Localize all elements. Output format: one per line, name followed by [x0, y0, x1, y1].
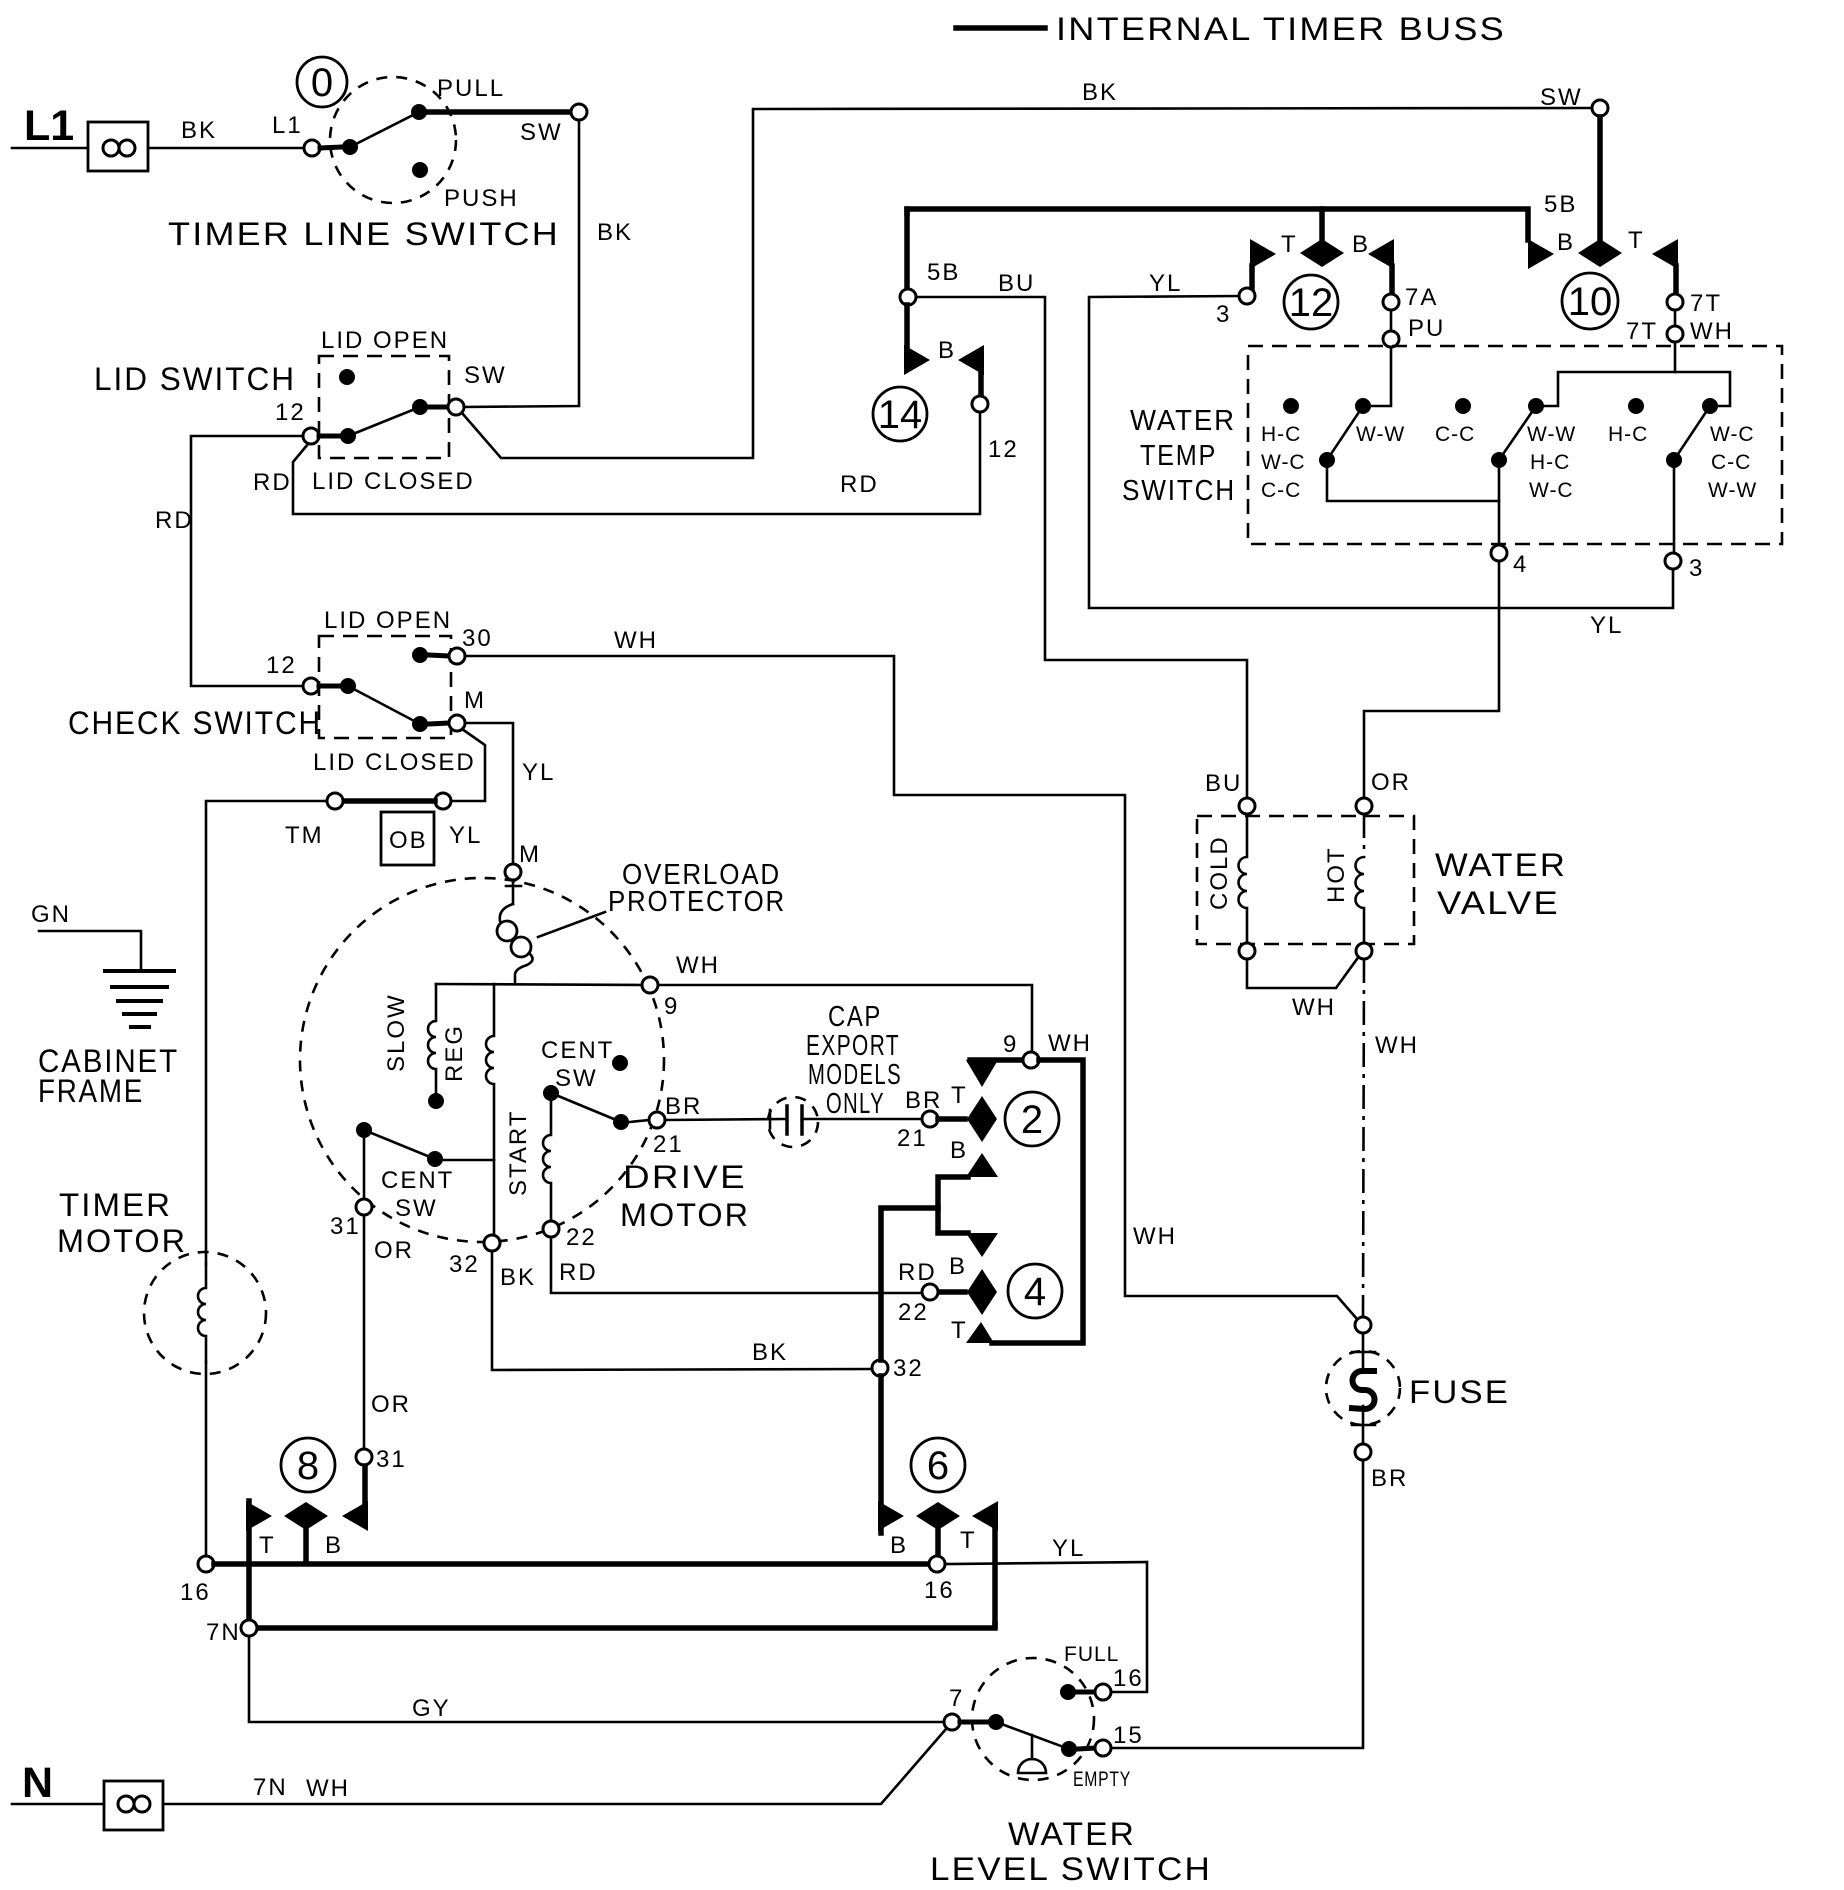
water level switch dashed circle: [972, 1658, 1094, 1780]
node M: [449, 715, 465, 731]
node HOT bottom: [1356, 943, 1372, 959]
node 7T WH: [1667, 326, 1683, 342]
node 32 right: [872, 1360, 888, 1376]
svg-text:OR: OR: [1371, 769, 1411, 796]
svg-text:TM: TM: [285, 822, 324, 849]
svg-text:YL: YL: [1052, 1535, 1085, 1562]
svg-text:LID SWITCH: LID SWITCH: [94, 361, 296, 397]
wire PU into box to switch A: [1372, 347, 1391, 406]
svg-text:L1: L1: [24, 102, 74, 150]
svg-text:RD: RD: [840, 471, 879, 498]
cam 4 top triangle: [966, 1233, 998, 1257]
svg-text:B: B: [938, 337, 956, 364]
wire 5B drop to cam 12: [1319, 209, 1325, 241]
lid switch pivot link: [319, 434, 340, 439]
fuse lead bottom: [1362, 1406, 1365, 1444]
node 31 cam8: [356, 1449, 372, 1465]
wire 5B left vertical: [904, 209, 910, 289]
wire BU from 5B node: [916, 297, 1247, 798]
cam 10 right triangle: [1652, 239, 1678, 269]
svg-text:MODELS: MODELS: [808, 1059, 902, 1091]
svg-text:CHECK SWITCH: CHECK SWITCH: [68, 705, 322, 741]
wire 7T staple: [1545, 372, 1730, 406]
svg-text:BK: BK: [500, 1264, 536, 1291]
timer line switch dashed outline: [330, 77, 456, 203]
node OR: [1356, 798, 1372, 814]
svg-text:T: T: [1628, 227, 1645, 254]
timer cam 6 badge: [911, 1438, 965, 1492]
check switch 30 link: [429, 655, 449, 656]
svg-text:BK: BK: [597, 219, 633, 246]
wire C common to node 3: [1673, 460, 1676, 553]
svg-text:7A: 7A: [1405, 284, 1438, 311]
cent sw right pivot contact: [543, 1085, 559, 1101]
check switch pivot link: [319, 684, 340, 689]
node 5B: [900, 289, 916, 305]
fuse dashed circle: [1326, 1351, 1400, 1425]
svg-text:YL: YL: [522, 759, 555, 786]
wire 7N WH to water level 7: [163, 1729, 946, 1804]
wire thick 32 down to cam6: [878, 1376, 884, 1533]
timer line switch arm: [350, 112, 419, 147]
cam 2/4 bracket thick: [970, 1057, 1023, 1063]
node SW lid switch: [448, 399, 464, 415]
wire RD lid to check switch: [191, 436, 303, 686]
svg-text:WH: WH: [1292, 994, 1336, 1021]
svg-text:T: T: [259, 1532, 276, 1559]
cam 12 left triangle: [1250, 239, 1276, 269]
svg-text:H-C: H-C: [1261, 423, 1301, 446]
cam 14 stem left: [904, 305, 910, 348]
wire BK down from SW: [464, 121, 579, 407]
cam 14 right triangle: [958, 345, 984, 375]
svg-text:INTERNAL TIMER BUSS: INTERNAL TIMER BUSS: [1056, 11, 1506, 47]
cam 12 left stem: [1249, 266, 1255, 289]
svg-text:9: 9: [664, 993, 679, 1020]
COLD coil: [1239, 814, 1248, 943]
wire SW lid switch to top BK buss: [462, 108, 1592, 458]
svg-text:12: 12: [266, 652, 297, 679]
svg-text:16: 16: [1113, 1665, 1144, 1692]
wire contact to node 31: [363, 1139, 366, 1199]
wire WH node9 to cam2 bracket: [658, 985, 1032, 1052]
terminal N: [22, 1759, 163, 1830]
svg-text:MOTOR: MOTOR: [57, 1223, 187, 1259]
wire PULL to SW (timer buss): [419, 109, 571, 115]
svg-text:WATER: WATER: [1008, 1816, 1136, 1852]
svg-text:7N: 7N: [206, 1619, 241, 1646]
cam 12 right stem: [1389, 266, 1395, 294]
svg-text:4: 4: [1513, 551, 1528, 578]
svg-text:TIMER: TIMER: [59, 1187, 172, 1223]
svg-text:22: 22: [566, 1224, 597, 1251]
wire TM-YL thick: [343, 798, 435, 804]
svg-text:REG: REG: [441, 1024, 468, 1082]
water temp switch dashed box: [1248, 346, 1782, 544]
wire BK 32 to cam 6 node: [492, 1251, 872, 1370]
cam 8 right stem: [362, 1466, 368, 1502]
bus 16 thick: [214, 1561, 929, 1567]
svg-text:B: B: [949, 1253, 967, 1280]
svg-text:CENT: CENT: [541, 1037, 614, 1064]
svg-text:PUSH: PUSH: [444, 185, 519, 212]
svg-text:31: 31: [376, 1446, 407, 1473]
svg-text:3: 3: [1689, 555, 1704, 582]
svg-text:W-C: W-C: [1261, 451, 1306, 474]
svg-text:FULL: FULL: [1064, 1643, 1119, 1666]
svg-text:START: START: [505, 1110, 532, 1196]
svg-text:BK: BK: [181, 117, 217, 144]
svg-text:WH: WH: [306, 1775, 350, 1802]
label CENT SW right: [541, 1037, 614, 1092]
svg-text:16: 16: [180, 1579, 211, 1606]
node PU: [1383, 331, 1399, 347]
wire WH valve bottom: [1247, 959, 1357, 988]
node 32: [484, 1235, 500, 1251]
wire M to motor: [465, 723, 513, 864]
cam 4 diamond: [967, 1269, 997, 1315]
node 7A: [1383, 294, 1399, 310]
temp switch C arm: [1674, 406, 1710, 460]
node 7: [944, 1714, 960, 1730]
check switch closed contact: [412, 716, 428, 732]
check switch pivot contact: [340, 678, 356, 694]
svg-text:32: 32: [449, 1251, 480, 1278]
capacitor lead tick: [769, 1110, 772, 1128]
label OVERLOAD PROTECTOR: [608, 859, 786, 918]
check switch M link: [429, 723, 449, 724]
water valve dashed box: [1197, 816, 1414, 944]
svg-text:B: B: [950, 1137, 968, 1164]
svg-text:OB: OB: [389, 827, 428, 854]
label W-W H-C W-C: [1527, 423, 1576, 502]
node 12 lid switch: [303, 428, 319, 444]
node fuse top: [1355, 1317, 1371, 1333]
svg-text:L1: L1: [272, 112, 303, 139]
temp switch A arm: [1327, 406, 1363, 460]
cam 2 stem: [938, 1116, 965, 1122]
OB box: [381, 812, 434, 865]
temp switch A arm contact: [1355, 398, 1371, 414]
svg-text:LID CLOSED: LID CLOSED: [312, 468, 475, 495]
cam 2 diamond: [967, 1096, 997, 1142]
cent sw left arm: [364, 1130, 435, 1159]
wire REG to node 32: [493, 1160, 496, 1235]
node 22: [543, 1221, 559, 1237]
svg-text:EMPTY: EMPTY: [1073, 1768, 1131, 1791]
cam 12 diamond: [1300, 239, 1344, 267]
svg-text:FUSE: FUSE: [1409, 1374, 1510, 1410]
node M motor: [505, 864, 521, 880]
lid switch open contact: [339, 369, 355, 385]
svg-text:SWITCH: SWITCH: [1122, 475, 1236, 507]
water level EMPTY contact: [1061, 1741, 1077, 1757]
svg-text:SW: SW: [464, 362, 507, 389]
node 7N: [241, 1620, 257, 1636]
svg-text:W-W: W-W: [1356, 423, 1405, 446]
cam 2/4 bracket right: [992, 1060, 1083, 1343]
svg-text:WATER: WATER: [1435, 847, 1567, 883]
svg-text:H-C: H-C: [1608, 423, 1648, 446]
wire BK to timer line switch: [148, 147, 304, 150]
node 7T: [1667, 294, 1683, 310]
timer cam 12 badge: [1284, 275, 1338, 329]
node 31: [356, 1199, 372, 1215]
temp switch A NC dot: [1283, 398, 1299, 414]
svg-text:CAP: CAP: [828, 1001, 882, 1033]
svg-text:BK: BK: [1082, 79, 1118, 106]
legend: internal timer buss: [956, 11, 1506, 47]
svg-text:M: M: [519, 841, 541, 868]
wire 7T link: [1674, 310, 1677, 326]
wire M to TM-YL row: [451, 729, 485, 801]
timer cam 4 badge: [1008, 1264, 1062, 1318]
svg-text:21: 21: [897, 1125, 928, 1152]
cent sw right open dot: [612, 1055, 628, 1071]
svg-text:EXPORT: EXPORT: [806, 1030, 900, 1062]
svg-text:VALVE: VALVE: [1437, 885, 1560, 921]
svg-text:DRIVE: DRIVE: [623, 1159, 747, 1195]
svg-text:W-W: W-W: [1527, 423, 1576, 446]
timer line switch L1 contact: [320, 147, 342, 148]
label WATER LEVEL SWITCH: [930, 1816, 1212, 1887]
water level arm: [996, 1722, 1069, 1749]
label CABINET FRAME: [38, 1043, 179, 1109]
svg-text:WH: WH: [1133, 1223, 1177, 1250]
cam 2 top triangle: [966, 1060, 998, 1087]
label TIMER MOTOR: [57, 1187, 187, 1259]
lid switch closed contact: [412, 399, 428, 415]
timer line switch PUSH contact: [412, 162, 428, 178]
node 21 motor: [649, 1112, 665, 1128]
cam 10 right stem: [1673, 266, 1679, 294]
node 30: [449, 648, 465, 664]
HOT coil: [1363, 814, 1366, 857]
wire GN: [39, 931, 141, 968]
svg-text:SLOW: SLOW: [383, 993, 410, 1072]
label W-C C-C W-W: [1708, 423, 1757, 502]
svg-text:3: 3: [1216, 301, 1231, 328]
node SW top right: [1592, 100, 1608, 116]
fuse tick bottom: [1352, 1424, 1375, 1427]
svg-text:RD: RD: [559, 1259, 598, 1286]
svg-text:M: M: [464, 687, 486, 714]
node 16 water level: [1095, 1684, 1111, 1700]
svg-text:T: T: [960, 1527, 977, 1554]
wire YL from bus 16: [945, 1562, 1147, 1692]
svg-text:22: 22: [898, 1299, 929, 1326]
svg-text:WH: WH: [1048, 1030, 1092, 1057]
cam 4 bottom triangle: [966, 1322, 994, 1343]
svg-text:FRAME: FRAME: [38, 1073, 144, 1109]
svg-text:7T: 7T: [1690, 290, 1722, 317]
svg-text:RD: RD: [898, 1259, 937, 1286]
svg-text:RD: RD: [253, 469, 292, 496]
wire timer motor to bus 16: [205, 1362, 208, 1556]
terminal L1: [24, 102, 148, 171]
cam 12 right triangle: [1368, 239, 1394, 269]
cam 8 left stem to 7N: [246, 1501, 252, 1620]
START winding: [543, 1102, 551, 1221]
temp switch A common: [1319, 452, 1335, 468]
svg-text:LID CLOSED: LID CLOSED: [313, 749, 476, 776]
temp switch right NC dot: [1628, 398, 1644, 414]
svg-text:RD: RD: [155, 507, 194, 534]
wire capacitor to node 21 cam2: [803, 1118, 922, 1121]
temp switch C arm contact: [1702, 398, 1718, 414]
temp switch mid NC dot: [1455, 398, 1471, 414]
svg-text:BR: BR: [905, 1087, 942, 1114]
svg-text:30: 30: [462, 625, 493, 652]
wire node 4 to water valve OR: [1364, 561, 1499, 798]
SLOW end dot: [428, 1093, 444, 1109]
node YL: [435, 793, 451, 809]
cam 8 left triangle: [246, 1501, 272, 1531]
wire RD 22 to cam 4: [551, 1237, 922, 1293]
svg-text:C-C: C-C: [1261, 479, 1301, 502]
drive motor dashed circle: [300, 878, 664, 1242]
water level common link: [960, 1720, 988, 1725]
timer cam 10 badge: [1562, 273, 1618, 329]
capacitor plates: [787, 1106, 802, 1134]
water level FULL link: [1077, 1690, 1095, 1695]
svg-text:BK: BK: [752, 1339, 788, 1366]
svg-text:MOTOR: MOTOR: [620, 1197, 750, 1233]
svg-text:W-W: W-W: [1708, 479, 1757, 502]
label WATER VALVE: [1435, 847, 1567, 921]
svg-text:0: 0: [311, 61, 333, 105]
water level FULL contact: [1060, 1684, 1076, 1700]
svg-text:B: B: [890, 1532, 908, 1559]
cam 10 diamond: [1578, 239, 1622, 267]
svg-text:COLD: COLD: [1206, 835, 1233, 910]
check switch open contact: [412, 647, 428, 663]
svg-text:31: 31: [330, 1213, 361, 1240]
label H-C W-C C-C: [1261, 423, 1306, 502]
svg-text:10: 10: [1568, 280, 1613, 324]
node TM: [327, 793, 343, 809]
node 3 cam12: [1239, 288, 1255, 304]
svg-text:PROTECTOR: PROTECTOR: [608, 886, 786, 918]
wire SW drop to cam 10: [1597, 117, 1603, 241]
wire TM to timer motor: [206, 801, 327, 1264]
timer motor dashed circle: [144, 1252, 266, 1374]
cam 10 left triangle: [1528, 239, 1554, 269]
SLOW winding: [428, 984, 436, 1093]
svg-text:H-C: H-C: [1530, 451, 1570, 474]
label DRIVE MOTOR: [620, 1159, 750, 1233]
REG winding: [486, 984, 494, 1160]
svg-text:5B: 5B: [1544, 191, 1577, 218]
node 9: [642, 977, 658, 993]
fuse element: [1349, 1371, 1377, 1409]
bus 7N thick: [257, 1624, 995, 1628]
timer cam 0 badge: [297, 57, 347, 107]
svg-text:15: 15: [1113, 1722, 1144, 1749]
node 21 cam2: [922, 1111, 938, 1127]
wire 7A to PU: [1390, 310, 1393, 331]
node 3 temp switch: [1665, 553, 1681, 569]
cam 8 stem: [303, 1530, 309, 1560]
pressure dome: [1018, 1759, 1046, 1773]
node BU: [1239, 798, 1255, 814]
svg-text:OR: OR: [374, 1237, 414, 1264]
cam 8 diamond: [284, 1502, 328, 1530]
svg-text:C-C: C-C: [1435, 423, 1475, 446]
node fuse bottom: [1355, 1444, 1371, 1460]
node 22 cam4: [922, 1284, 938, 1300]
node 16 right: [929, 1556, 945, 1572]
cam 6 stem: [935, 1530, 941, 1556]
cent sw left upper contact: [356, 1122, 372, 1138]
svg-text:T: T: [1281, 231, 1298, 258]
timer cam 2 badge: [1005, 1092, 1059, 1146]
svg-text:B: B: [325, 1532, 343, 1559]
cam 4 stem: [938, 1289, 965, 1295]
temp switch B common: [1491, 452, 1507, 468]
timer motor coil: [198, 1264, 206, 1362]
node 12 cam14: [972, 396, 988, 412]
capacitor dashed circle: [768, 1097, 818, 1147]
cam 6 left triangle: [878, 1501, 904, 1531]
check switch arm: [348, 686, 420, 724]
timer line switch PULL contact: [411, 104, 427, 120]
svg-text:9: 9: [1003, 1031, 1018, 1058]
node 12 check switch: [303, 678, 319, 694]
wire YL cam12 to temp switch: [1089, 296, 1673, 608]
svg-text:BU: BU: [998, 270, 1035, 297]
node 4 temp switch: [1491, 545, 1507, 561]
label WATER TEMP SWITCH: [1122, 405, 1236, 507]
svg-text:BU: BU: [1205, 770, 1242, 797]
wire L1 lead BK: [12, 147, 88, 150]
svg-text:4: 4: [1024, 1270, 1046, 1314]
svg-text:ONLY: ONLY: [826, 1088, 885, 1120]
overload pointer line: [538, 912, 605, 937]
node 9 WH cam bracket: [1023, 1052, 1039, 1068]
node SW: [571, 104, 587, 120]
wire to node 21: [630, 1120, 649, 1122]
label CENT SW left: [381, 1167, 454, 1222]
wire B common to node 4: [1498, 460, 1501, 545]
timer buss 5B top: [907, 209, 1528, 240]
water level common contact: [988, 1714, 1004, 1730]
svg-text:WH: WH: [676, 952, 720, 979]
svg-text:LID OPEN: LID OPEN: [324, 607, 452, 634]
cam 6 right stem: [992, 1528, 998, 1624]
svg-text:WH: WH: [614, 627, 658, 654]
svg-text:16: 16: [924, 1577, 955, 1604]
svg-text:5B: 5B: [927, 259, 960, 286]
cent sw right lower contact: [613, 1114, 629, 1130]
water level EMPTY link: [1078, 1748, 1095, 1749]
svg-text:N: N: [22, 1759, 53, 1807]
cam 14 right stem: [978, 373, 984, 396]
svg-text:GY: GY: [412, 1695, 451, 1722]
svg-text:SW: SW: [555, 1065, 598, 1092]
svg-text:HOT: HOT: [1323, 846, 1350, 903]
wire overload to node 9: [436, 984, 642, 985]
ground cabinet frame symbol: [105, 971, 174, 1027]
svg-text:LID OPEN: LID OPEN: [321, 327, 449, 354]
lid switch pivot contact: [340, 428, 356, 444]
cent sw right arm: [551, 1093, 621, 1122]
pressure dome stem: [1031, 1735, 1034, 1759]
svg-text:T: T: [951, 1317, 968, 1344]
wire WH check 30 to fuse: [465, 656, 1357, 1319]
overload protector: [497, 880, 533, 984]
svg-text:YL: YL: [1590, 612, 1623, 639]
